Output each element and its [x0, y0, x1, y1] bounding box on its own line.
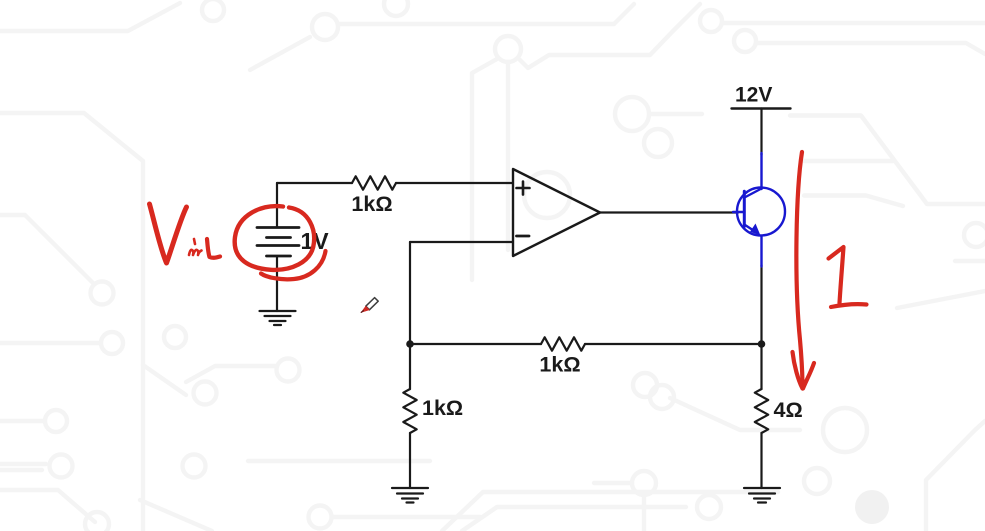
node B junction dot [758, 340, 766, 348]
red annotation: circle around source [235, 206, 314, 270]
red annotation: L [207, 239, 220, 258]
wire 12V to transistor collector [760, 109, 762, 156]
battery V1 plates [257, 228, 299, 257]
ground (R2) [392, 487, 428, 489]
emitter stub [760, 236, 762, 267]
svg-text:4Ω: 4Ω [774, 398, 803, 422]
red annotation: Vin label V [150, 152, 867, 389]
wire node B to RL [760, 344, 762, 389]
base bar [743, 191, 746, 226]
red annotation: in subscript [189, 250, 202, 255]
red annotation: numeral 1 [829, 247, 844, 303]
main black circuit [257, 109, 791, 503]
op-amp plus mark [517, 182, 530, 195]
feedback wire node A to resistor [410, 343, 541, 345]
transistor circle [737, 188, 785, 236]
svg-text:12V: 12V [735, 84, 772, 107]
feedback wire resistor to node B [585, 343, 762, 345]
resistor R1 1k (input) [352, 176, 396, 189]
red annotation: circle tail [261, 251, 326, 279]
12V supply bar [732, 107, 791, 109]
wire minus input down to node A [409, 242, 411, 344]
collector lead [745, 189, 762, 198]
wire source top to resistor [277, 182, 352, 184]
pencil cursor [361, 298, 378, 313]
wire resistor to op-amp + input [396, 182, 513, 184]
ground (RL) [744, 487, 780, 489]
op-amp minus mark [517, 235, 530, 238]
ground (source) [260, 310, 296, 312]
svg-text:1kΩ: 1kΩ [539, 353, 580, 377]
red annotation: current arrow [796, 152, 802, 388]
wire battery to ground [276, 256, 278, 311]
emitter lead [744, 225, 752, 230]
svg-text:1kΩ: 1kΩ [422, 396, 463, 420]
resistor RL 4ohm [755, 389, 768, 433]
wire op-amp output to transistor base [600, 211, 738, 213]
collector stub [760, 153, 762, 189]
wire op-amp minus input [410, 241, 513, 243]
wire source vertical top [276, 183, 278, 227]
transistor Q1 (blue) [733, 153, 785, 267]
wire node A to R2 [409, 344, 411, 389]
wire R2 to ground [409, 433, 411, 488]
wire RL to ground [760, 433, 762, 488]
resistor R2 1k (to ground) [403, 389, 416, 433]
op-amp U1 [513, 169, 600, 256]
emitter arrowhead [750, 224, 761, 236]
wire transistor emitter down to node B [760, 265, 762, 344]
resistor Rf 1k (feedback) [541, 337, 585, 350]
base stub [733, 211, 745, 213]
svg-text:1kΩ: 1kΩ [351, 192, 392, 216]
node A junction dot [406, 340, 414, 348]
